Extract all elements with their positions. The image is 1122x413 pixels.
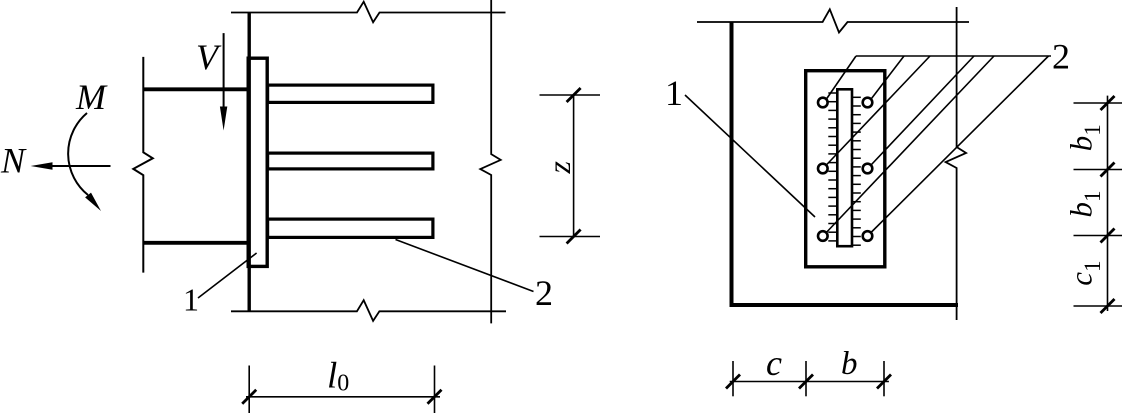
svg-text:1: 1: [183, 282, 199, 318]
svg-text:2: 2: [535, 273, 553, 313]
svg-text:b: b: [841, 346, 858, 382]
svg-text:M: M: [75, 77, 108, 117]
svg-text:N: N: [0, 141, 27, 181]
svg-text:2: 2: [1052, 37, 1070, 77]
svg-text:1: 1: [665, 73, 683, 113]
svg-text:c: c: [766, 343, 782, 383]
svg-text:z: z: [541, 161, 577, 175]
